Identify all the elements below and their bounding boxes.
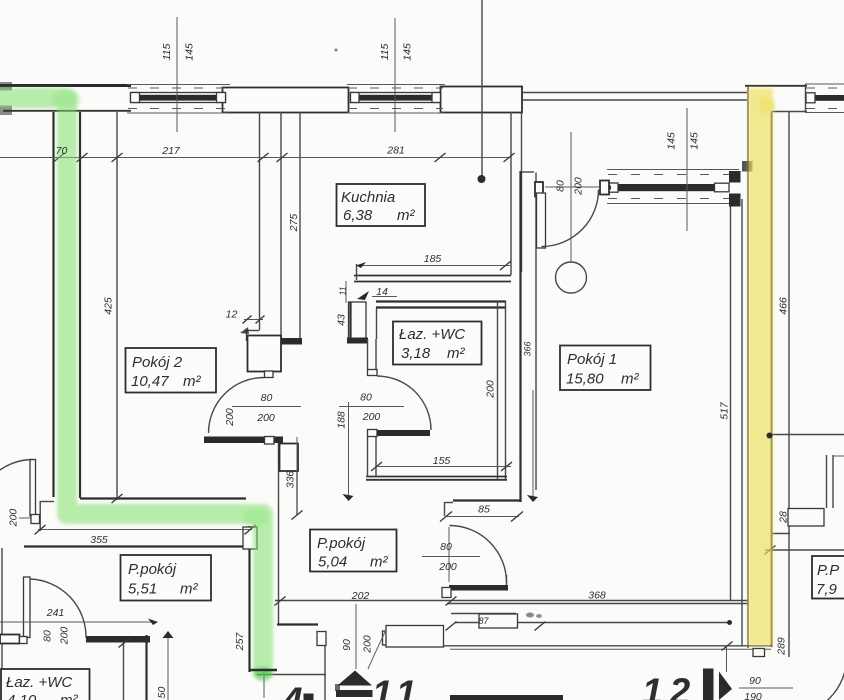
svg-text:m²: m²: [183, 373, 201, 390]
svg-text:4,10: 4,10: [7, 692, 37, 700]
svg-text:7,9: 7,9: [816, 581, 838, 598]
svg-text:14: 14: [376, 286, 388, 298]
svg-text:368: 368: [588, 590, 606, 602]
svg-text:145: 145: [184, 43, 196, 61]
svg-text:3,18: 3,18: [401, 345, 431, 362]
svg-text:87: 87: [478, 616, 489, 626]
svg-text:P.pokój: P.pokój: [128, 561, 177, 578]
svg-text:200: 200: [224, 408, 236, 427]
svg-text:4: 4: [281, 680, 303, 700]
svg-text:10,47: 10,47: [131, 373, 169, 390]
svg-text:517: 517: [719, 401, 731, 420]
svg-text:80: 80: [42, 630, 54, 642]
svg-text:12: 12: [642, 671, 697, 700]
svg-text:80: 80: [360, 392, 372, 404]
svg-text:145: 145: [689, 132, 701, 150]
svg-text:m²: m²: [621, 371, 639, 388]
svg-text:P.pokój: P.pokój: [317, 535, 366, 552]
svg-text:80: 80: [555, 180, 567, 192]
svg-text:Pokój 2: Pokój 2: [132, 354, 183, 371]
svg-text:m²: m²: [397, 207, 415, 224]
svg-text:185: 185: [424, 253, 442, 265]
svg-text:200: 200: [362, 411, 381, 423]
svg-text:m²: m²: [447, 345, 465, 362]
svg-text:200: 200: [8, 509, 20, 528]
svg-text:190: 190: [744, 691, 762, 700]
svg-text:200: 200: [573, 177, 585, 196]
svg-text:m²: m²: [60, 692, 78, 700]
svg-text:70: 70: [56, 145, 68, 157]
svg-text:200: 200: [362, 635, 374, 654]
svg-text:85: 85: [478, 504, 490, 516]
svg-text:202: 202: [351, 590, 370, 602]
svg-text:425: 425: [103, 297, 115, 315]
svg-text:115: 115: [161, 43, 173, 60]
svg-text:Łaz. +WC: Łaz. +WC: [6, 674, 72, 691]
svg-text:115: 115: [379, 43, 391, 60]
svg-text:188: 188: [336, 411, 348, 429]
svg-text:Pokój 1: Pokój 1: [567, 351, 617, 368]
svg-text:336: 336: [285, 471, 297, 489]
svg-text:80: 80: [440, 541, 452, 553]
svg-text:5,51: 5,51: [128, 581, 157, 598]
svg-text:200: 200: [438, 561, 457, 573]
svg-text:366: 366: [523, 341, 533, 356]
svg-text:11: 11: [372, 673, 422, 700]
svg-text:6,38: 6,38: [343, 207, 373, 224]
svg-text:11: 11: [338, 286, 348, 295]
svg-text:15,80: 15,80: [566, 371, 604, 388]
svg-text:217: 217: [161, 145, 181, 157]
svg-text:90: 90: [749, 675, 761, 687]
svg-text:241: 241: [46, 607, 65, 619]
svg-text:m²: m²: [180, 581, 198, 598]
svg-text:145: 145: [666, 132, 678, 150]
svg-text:155: 155: [433, 455, 451, 467]
svg-text:275: 275: [288, 214, 300, 233]
svg-text:Łaz. +WC: Łaz. +WC: [399, 326, 465, 343]
svg-text:12: 12: [226, 309, 238, 321]
svg-text:P.P: P.P: [817, 562, 839, 579]
svg-text:80: 80: [261, 392, 273, 404]
svg-text:200: 200: [59, 627, 71, 646]
svg-text:50: 50: [156, 687, 168, 699]
svg-text:281: 281: [386, 145, 405, 157]
svg-text:257: 257: [234, 632, 246, 652]
svg-text:Kuchnia: Kuchnia: [341, 189, 395, 206]
svg-text:5,04: 5,04: [318, 554, 347, 571]
svg-text:90: 90: [341, 639, 353, 651]
svg-text:m²: m²: [370, 554, 388, 571]
svg-text:289: 289: [776, 637, 788, 656]
svg-text:200: 200: [485, 380, 497, 399]
svg-text:28: 28: [778, 511, 790, 524]
svg-text:355: 355: [90, 534, 108, 546]
svg-text:145: 145: [402, 43, 414, 61]
svg-text:466: 466: [778, 297, 790, 315]
svg-text:200: 200: [256, 412, 275, 424]
svg-text:43: 43: [336, 314, 348, 326]
